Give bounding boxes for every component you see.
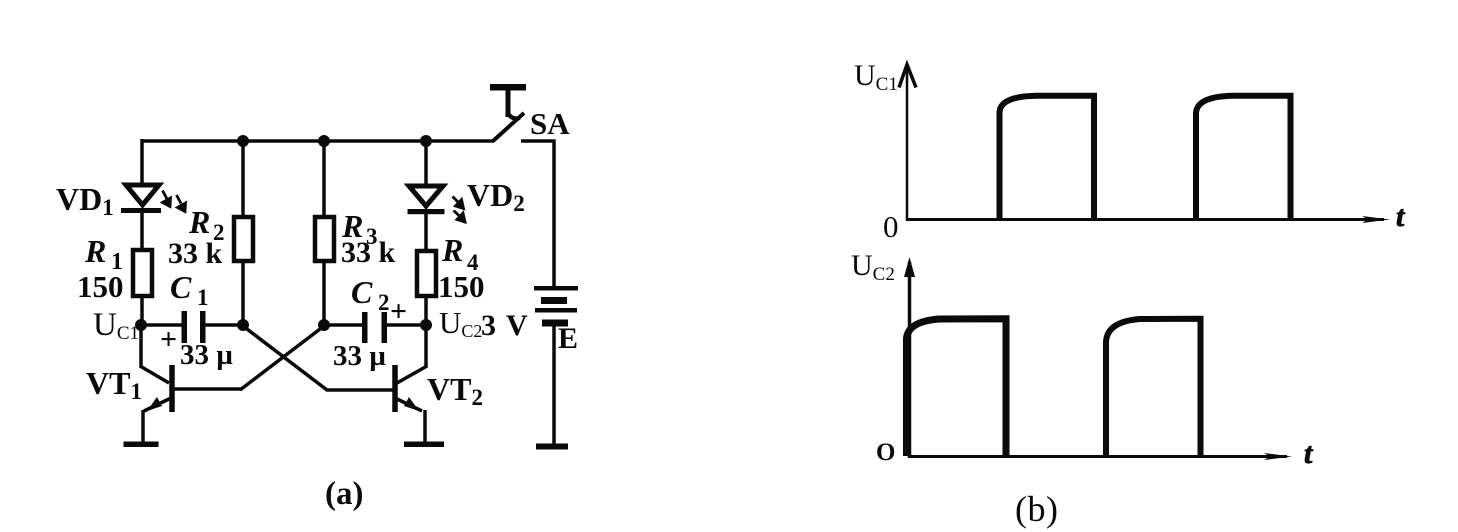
svg-text:150: 150 [438, 269, 485, 304]
node junction top of VD2 [420, 135, 432, 147]
svg-text:+: + [160, 323, 177, 356]
node B1 [237, 319, 249, 331]
svg-text:V: V [506, 309, 528, 342]
wire top rail [141, 139, 494, 143]
svg-text:+: + [390, 295, 407, 328]
node UC1 [135, 319, 147, 331]
resistor R4 [417, 251, 436, 296]
svg-text:C: C [351, 274, 373, 310]
svg-text:(b): (b) [1015, 489, 1058, 529]
svg-text:E: E [558, 322, 578, 355]
switch SA [490, 84, 526, 141]
chart2 waveform pulse 2 [1106, 319, 1201, 456]
wire VD1 to R1 [140, 213, 144, 252]
node UC2 [420, 319, 432, 331]
svg-text:33 k: 33 k [168, 237, 223, 270]
svg-text:C: C [170, 269, 192, 305]
svg-text:UC2: UC2 [439, 305, 482, 341]
svg-text:150: 150 [77, 269, 124, 304]
wire R3 column top [322, 141, 326, 218]
node B2 [318, 319, 330, 331]
svg-text:33 µ: 33 µ [333, 340, 386, 372]
transistor VT2 [395, 325, 427, 443]
svg-text:R: R [84, 233, 106, 269]
chart2 x-axis [909, 453, 1292, 460]
node junction top of R2 [237, 135, 249, 147]
svg-text:UC2: UC2 [851, 249, 895, 285]
wire battery to ground [552, 326, 556, 446]
svg-text:SA: SA [530, 106, 570, 141]
wire UC1 to C1 left plate [141, 323, 183, 327]
ground of battery [536, 444, 568, 450]
svg-text:0: 0 [883, 209, 899, 244]
chart1 y-axis [899, 65, 916, 222]
resistor R2 [234, 217, 253, 261]
wire VT2 base line [326, 388, 394, 392]
VD1 emission arrows [163, 191, 186, 212]
resistor R3 [315, 217, 334, 261]
chart2 y-axis [904, 257, 915, 458]
svg-text:R: R [441, 232, 463, 268]
chart1 waveform pulse 1 [1000, 96, 1095, 219]
svg-text:33 µ: 33 µ [180, 339, 233, 371]
wire cross-couple B1 to VT2 base [243, 326, 327, 390]
svg-text:t: t [1304, 437, 1314, 470]
transistor VT1 [140, 325, 172, 443]
VD2 emission arrows [453, 197, 466, 223]
capacitor C1 [182, 311, 206, 343]
resistor R1 [133, 250, 152, 296]
chart2 waveform pulse 1 [907, 319, 1007, 456]
svg-text:R: R [188, 204, 210, 240]
ground of VT1 [124, 442, 159, 448]
svg-text:VD1: VD1 [56, 181, 114, 220]
wire cross-couple B2 to VT1 base [240, 326, 324, 390]
svg-text:VT2: VT2 [427, 371, 483, 410]
svg-text:33 k: 33 k [341, 236, 396, 269]
wire VD2 to R4 [424, 214, 428, 253]
svg-text:UC1: UC1 [93, 307, 139, 344]
LED VD1 [121, 185, 161, 213]
wire R4 to node UC2 [424, 296, 428, 328]
wire B2 to C2 left plate [324, 323, 364, 327]
LED VD2 [408, 186, 445, 214]
svg-text:1: 1 [197, 285, 209, 310]
wire left rail top [140, 139, 144, 185]
ground of VT2 [404, 442, 444, 448]
wire switch to battery rail [521, 141, 554, 288]
wire R3 bottom to node B2 [322, 261, 326, 325]
chart1 x-axis [907, 216, 1390, 223]
svg-text:(a): (a) [325, 476, 363, 512]
svg-text:t: t [1396, 200, 1406, 233]
wire C1 right plate to node B1 [204, 323, 243, 327]
svg-text:O: O [876, 439, 895, 466]
wire VT1 base line [172, 387, 241, 391]
svg-text:UC1: UC1 [854, 59, 898, 95]
capacitor C2 [362, 312, 387, 343]
node junction top of R3 [318, 135, 330, 147]
svg-text:3: 3 [481, 309, 496, 342]
wire R1 to node UC1 [140, 296, 144, 330]
svg-text:2: 2 [378, 290, 390, 315]
battery E [534, 286, 578, 327]
wire R2 bottom to node B1 [241, 261, 245, 325]
wire VD2 column top [424, 139, 428, 186]
wire R2 column top [241, 141, 245, 218]
svg-text:VD2: VD2 [467, 177, 525, 216]
wire C2 right plate to node UC2 [386, 323, 426, 327]
svg-text:VT1: VT1 [86, 365, 142, 404]
chart1 waveform pulse 2 [1196, 96, 1291, 219]
